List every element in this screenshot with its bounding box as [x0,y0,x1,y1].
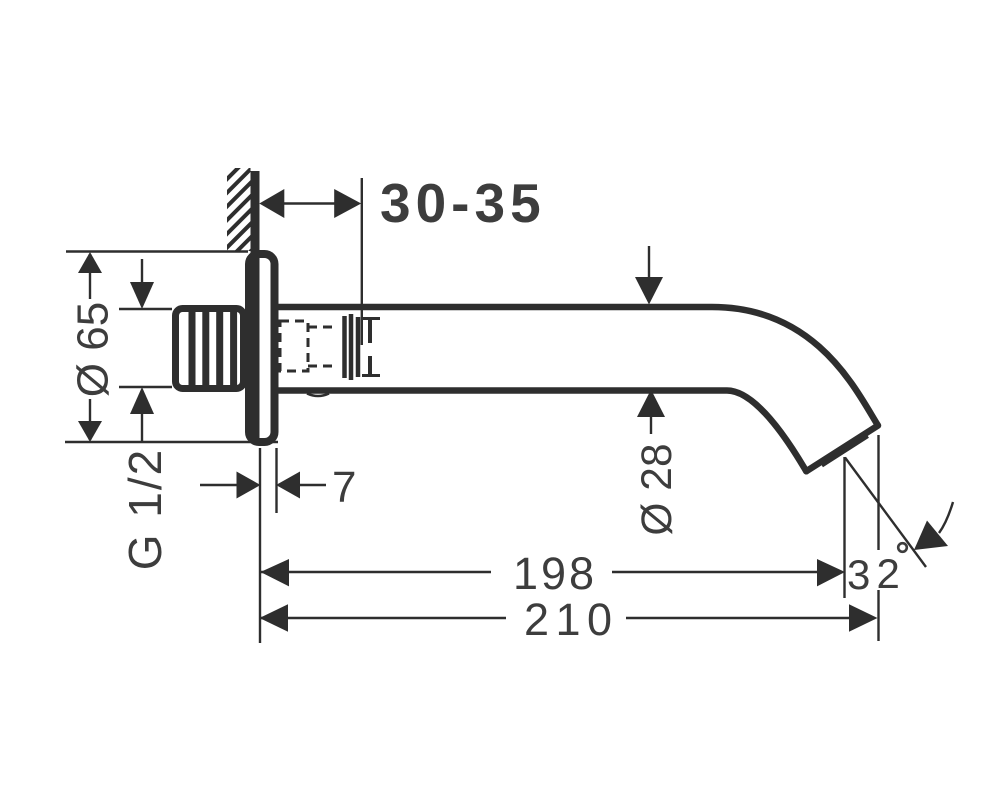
hidden hose connector (dashed) [280,314,380,380]
wall hatch [217,154,252,285]
svg-text:210: 210 [524,594,619,645]
threaded nipple G1/2 [176,309,244,389]
svg-text:7: 7 [332,463,356,512]
svg-text:198: 198 [513,548,597,599]
svg-text:Ø 28: Ø 28 [634,443,681,535]
escutcheon flange [249,254,275,442]
dimension 210 [260,435,879,645]
dimension D28 [634,246,681,536]
dimension 30-35 [259,172,545,345]
svg-text:30-35: 30-35 [380,172,546,234]
dimension G1/2 [119,259,172,570]
spout body inner edge [277,391,806,472]
spout body outer edge and outlet face [277,307,878,471]
aerator lip on outlet face [822,436,868,465]
svg-text:3: 3 [847,551,870,598]
svg-text:Ø 65: Ø 65 [69,302,118,397]
dimension 198 [261,457,846,599]
svg-text:G 1/2: G 1/2 [119,448,171,571]
svg-text:2: 2 [877,550,900,597]
dimension D65 [65,252,278,443]
dimension 7 [200,448,356,643]
wall line [251,171,260,440]
base bulge arc under tube [307,394,329,397]
dimension 32 degrees [845,458,953,599]
